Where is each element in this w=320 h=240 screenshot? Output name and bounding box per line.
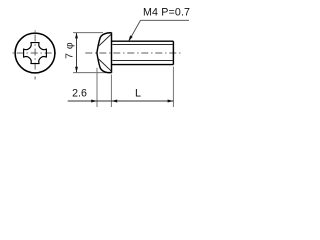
svg-text:M4 P=0.7: M4 P=0.7 [143,7,190,19]
svg-text:2.6: 2.6 [72,87,87,99]
svg-text:L: L [135,88,141,100]
